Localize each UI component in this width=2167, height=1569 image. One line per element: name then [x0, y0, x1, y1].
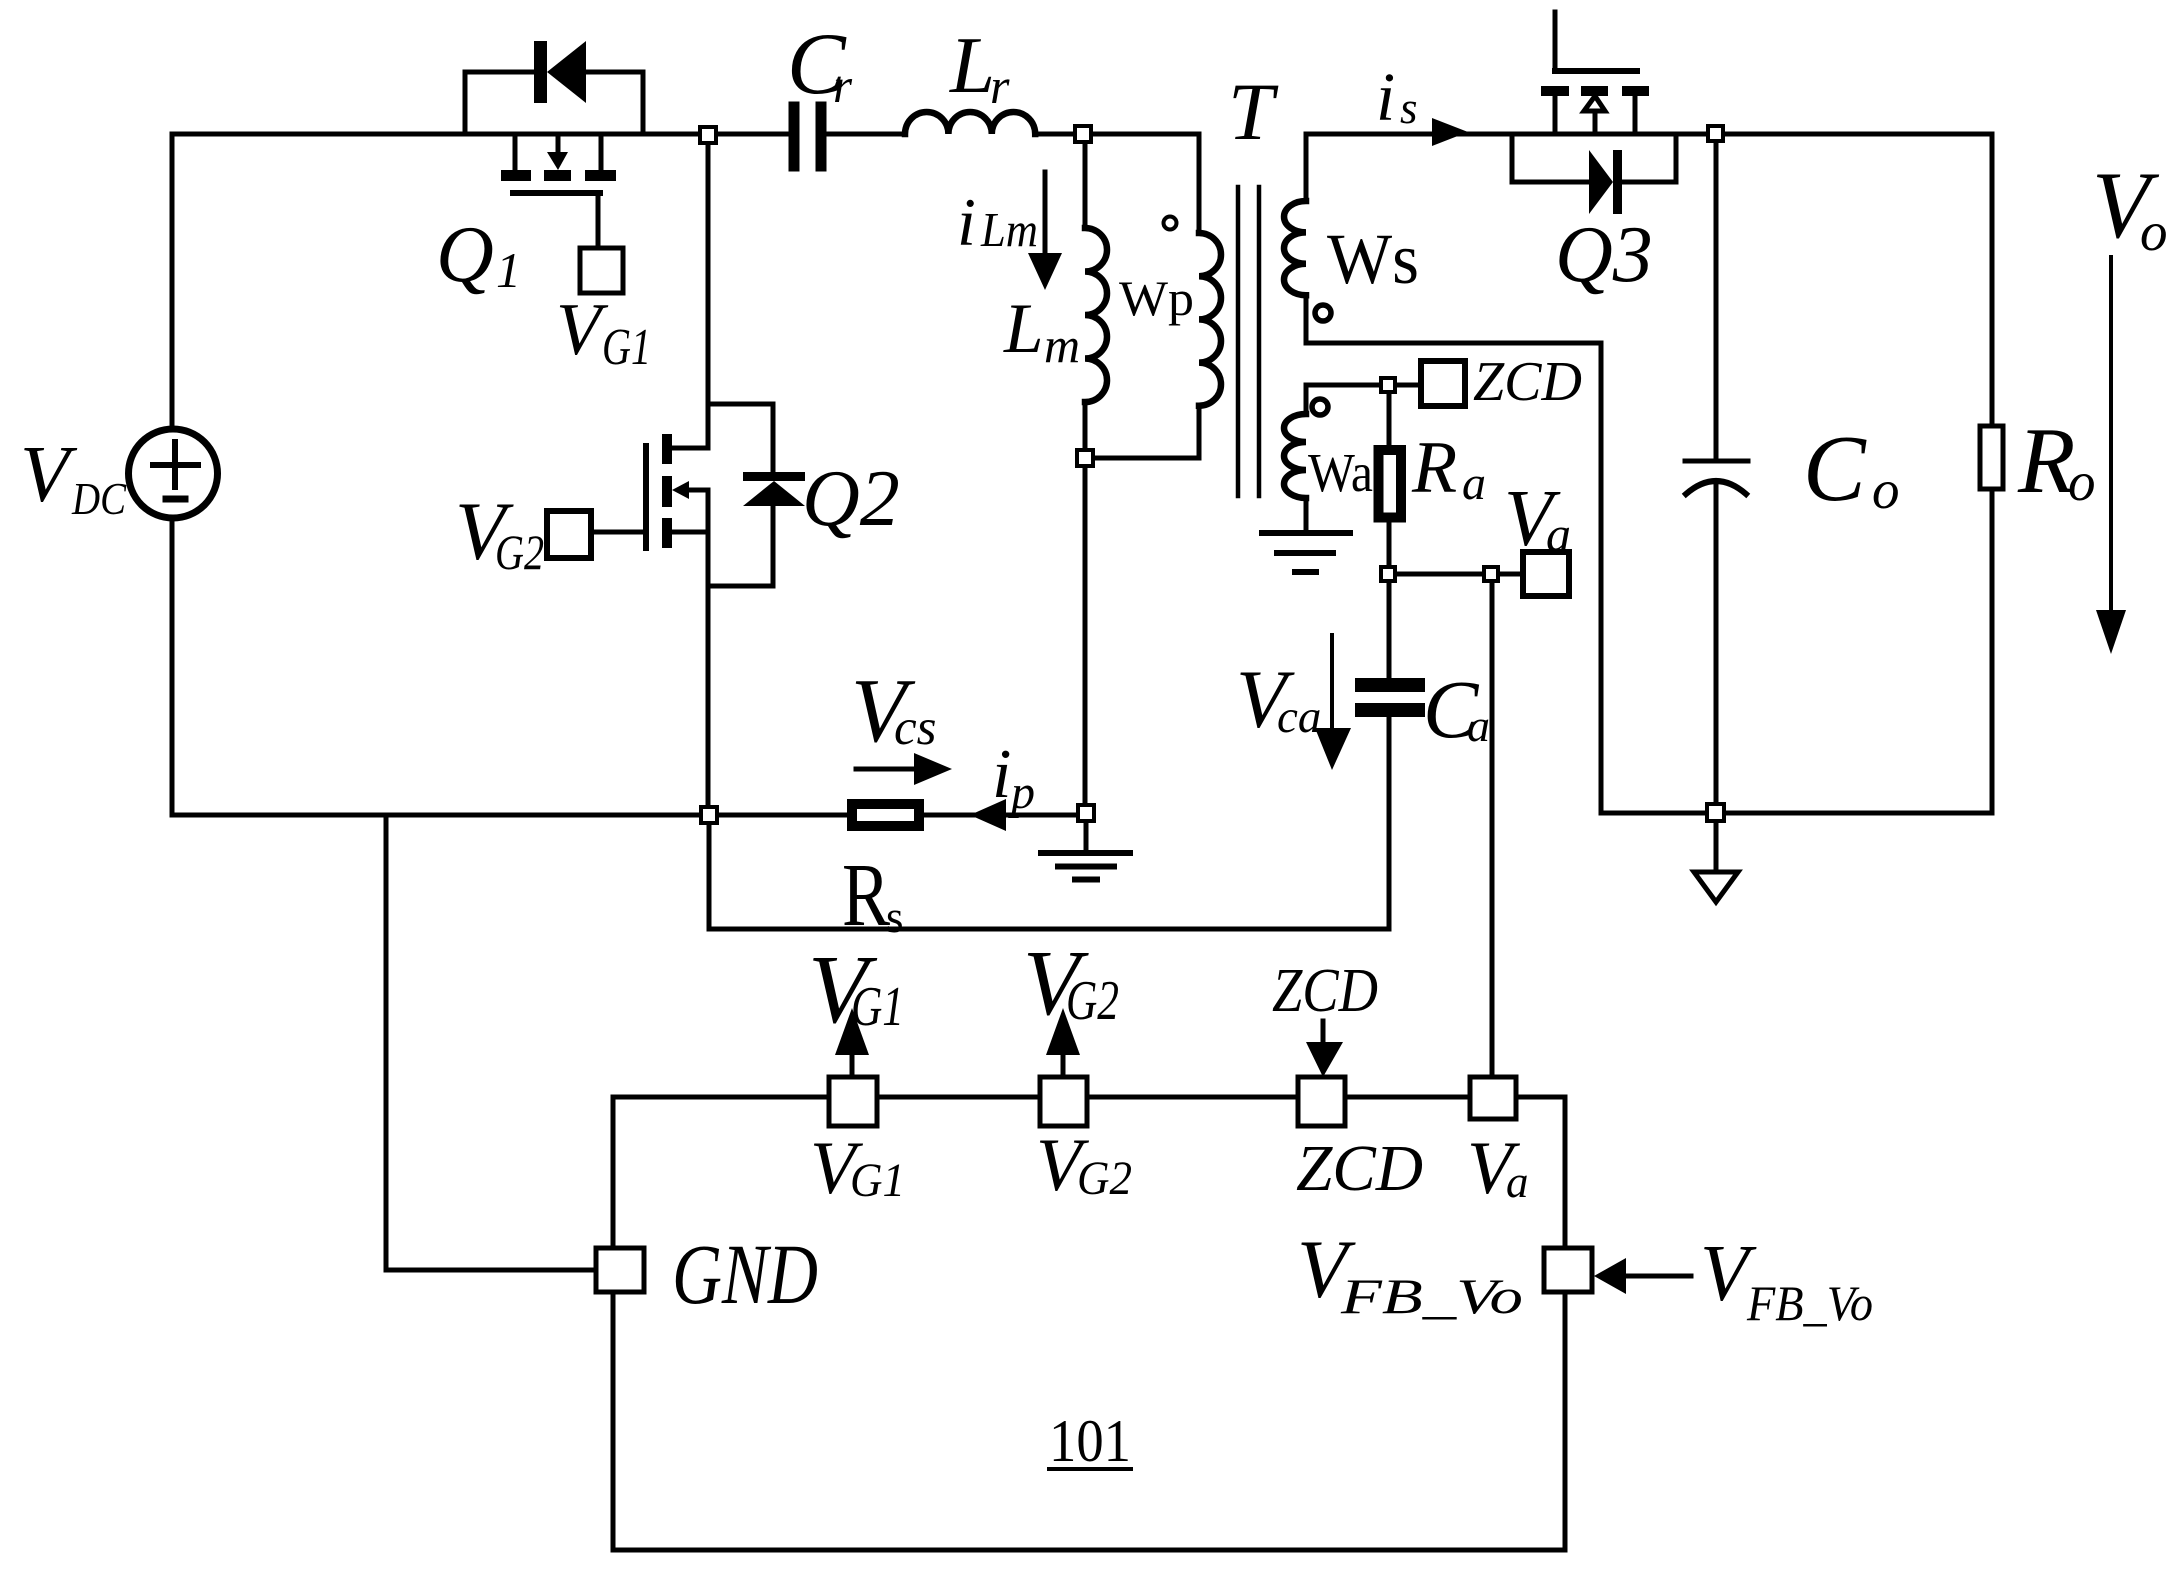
svg-text:r: r — [990, 58, 1010, 114]
svg-text:101: 101 — [1049, 1408, 1131, 1474]
arrow VG1 line above pin — [850, 1053, 855, 1077]
svg-text:R: R — [842, 846, 890, 945]
diode D(Q1) cathode bar — [534, 41, 547, 103]
capacitor Ca top plate — [1362, 678, 1418, 692]
transformer core lines — [1238, 187, 1259, 496]
transistor Q2 source vertical — [706, 490, 711, 815]
arrow ZCD line above pin — [1321, 1021, 1326, 1044]
wire output return bottom — [1601, 811, 1992, 816]
svg-text:o: o — [2068, 451, 2096, 512]
winding Wp bottom wire — [1197, 406, 1202, 458]
VDC minus sign — [166, 496, 185, 503]
arrow VG1 head — [835, 1008, 869, 1055]
resistor Ra — [1379, 450, 1402, 518]
svg-text:m: m — [1044, 317, 1080, 373]
pin VG2 — [1040, 1077, 1087, 1126]
svg-text:L: L — [1003, 290, 1044, 368]
transistor Q2 bulk tie — [688, 488, 708, 493]
wire secondary top from Ws to right corner — [1306, 132, 1992, 137]
svg-text:FB_Vo: FB_Vo — [1340, 1268, 1523, 1324]
transistor Q2 gate line — [643, 446, 649, 548]
winding Wp coil — [1199, 233, 1221, 406]
transistor Q3 bulk arrowhead (open) — [1584, 96, 1605, 111]
transistor Q1 body-diode loop — [465, 72, 643, 134]
svg-text:V: V — [20, 429, 78, 519]
svg-text:G1: G1 — [602, 319, 651, 376]
winding Wa bottom wire — [1304, 498, 1309, 532]
svg-text:ZCD: ZCD — [1473, 351, 1582, 413]
transistor Q2 diode branch bottom — [708, 506, 773, 586]
svg-text:R: R — [1411, 427, 1457, 509]
transistor Q3 diode loop — [1512, 134, 1676, 182]
wire left vertical upper (VDC to top) — [170, 134, 175, 429]
winding Ws coil — [1284, 201, 1306, 295]
resistor Ra top wire — [1387, 392, 1392, 445]
svg-text:o: o — [1872, 459, 1900, 520]
svg-text:a: a — [1467, 700, 1490, 751]
node square (Q2 drain / top wire) — [700, 127, 716, 143]
node square (after Lr) — [1075, 126, 1091, 142]
svg-text:Ws: Ws — [1327, 219, 1419, 299]
resistor Ro — [1980, 426, 2003, 489]
node square (Va junction left) — [1381, 567, 1395, 581]
ground (output) open triangle — [1694, 872, 1738, 902]
svg-text:Q3: Q3 — [1555, 211, 1653, 299]
transistor Q2 drain vertical — [706, 142, 711, 448]
capacitor Co bottom wire — [1714, 481, 1719, 813]
wire bottom Rs to ip node — [924, 813, 1086, 818]
wire Va row left — [1395, 572, 1484, 577]
transistor Q1 drain stub — [513, 134, 518, 170]
arrow VFB_Vo head — [1594, 1258, 1626, 1294]
arrow VFB_Vo line external — [1624, 1274, 1691, 1279]
svg-text:ca: ca — [1277, 691, 1321, 743]
svg-text:ZCD: ZCD — [1296, 1132, 1423, 1205]
voltage source VDC circle — [129, 429, 218, 518]
transistor Q2 source tie — [672, 530, 708, 535]
svg-text:GND: GND — [672, 1226, 818, 1322]
svg-text:o: o — [2140, 201, 2167, 262]
svg-text:1: 1 — [496, 242, 521, 298]
controller box 101 — [613, 1097, 1565, 1550]
wire Ro bottom — [1990, 489, 1995, 813]
resistor Rs — [852, 804, 919, 826]
winding Wp top wire — [1197, 134, 1202, 233]
winding Ws bottom wire — [1304, 295, 1309, 343]
svg-text:T: T — [1228, 66, 1279, 157]
node square (ZCD junction) — [1381, 378, 1395, 392]
arrow Vcs head — [914, 753, 952, 785]
wire left vertical lower (VDC to bottom) — [170, 518, 175, 815]
svg-text:G2: G2 — [1077, 1152, 1132, 1205]
arrow is head — [1432, 118, 1468, 146]
arrow Vca line — [1330, 635, 1334, 726]
svg-text:ZCD: ZCD — [1272, 957, 1378, 1025]
svg-text:a: a — [1506, 1157, 1529, 1207]
svg-text:Wa: Wa — [1308, 442, 1373, 503]
svg-text:G2: G2 — [495, 524, 544, 580]
transistor Q3 source stub — [1633, 96, 1638, 134]
transistor Q1 channel bars — [501, 170, 531, 181]
transistor Q3 bulk wire — [1593, 111, 1598, 134]
svg-text:i: i — [992, 736, 1011, 813]
arrow Vo head — [2096, 610, 2126, 654]
transistor Q1 bulk wire — [556, 134, 561, 152]
svg-text:i: i — [957, 184, 976, 260]
node square (Wp bottom) — [1077, 450, 1093, 466]
transistor Q2 drain tie — [672, 446, 708, 451]
arrow VG2 head — [1046, 1008, 1080, 1055]
svg-text:p: p — [1008, 766, 1035, 819]
svg-text:G1: G1 — [851, 976, 904, 1038]
ground (primary, below ip) — [1084, 821, 1089, 851]
node square (Va junction right) — [1484, 567, 1498, 581]
svg-text:Q2: Q2 — [802, 455, 900, 543]
transistor Q3 channel bars — [1541, 86, 1569, 96]
node square (after Q3) — [1708, 126, 1723, 141]
diode D(Q2) triangle — [743, 481, 805, 506]
arrow VG2 line above pin — [1061, 1053, 1066, 1077]
transistor Q3 gate stub — [1553, 12, 1558, 70]
transistor Q1 bulk arrowhead — [547, 152, 568, 170]
wire Va row right — [1498, 572, 1523, 577]
pin ZCD — [1298, 1077, 1345, 1126]
ground (Wa) — [1262, 533, 1350, 572]
svg-text:a: a — [1546, 506, 1571, 562]
svg-text:s: s — [1400, 83, 1418, 133]
capacitor Co top plate — [1685, 459, 1748, 464]
arrow iLm line — [1043, 172, 1048, 260]
polarity dot Wp — [1164, 217, 1177, 230]
wire secondary return vertical — [1599, 343, 1604, 813]
arrow Vca head — [1315, 728, 1351, 770]
svg-text:DC: DC — [71, 473, 127, 524]
pin VFB_Vo — [1544, 1248, 1592, 1292]
transistor Q2 channel bars — [662, 434, 672, 464]
wire top main left — [172, 132, 789, 137]
arrow Vo line — [2109, 257, 2113, 640]
winding Wa top wire — [1306, 385, 1421, 414]
polarity dot Ws — [1315, 305, 1331, 321]
svg-text:Lm: Lm — [980, 202, 1038, 257]
wire Wp bottom tie — [1085, 456, 1199, 461]
capacitor Ca top wire — [1387, 581, 1392, 678]
svg-text:G2: G2 — [1066, 970, 1119, 1032]
wire top after Cr — [826, 132, 905, 137]
wire GND drop vertical — [384, 815, 389, 1270]
node square (bottom left) — [701, 807, 717, 823]
transistor Q1 source stub — [599, 134, 604, 170]
transistor Q3 drain stub — [1553, 96, 1558, 134]
svg-text:C: C — [1803, 417, 1867, 521]
diode D(Q2) cathode bar — [743, 472, 805, 481]
diode D(Q3) triangle — [1589, 150, 1613, 214]
capacitor Cr left plate — [789, 107, 800, 166]
svg-text:r: r — [833, 58, 853, 113]
wire bottom main left — [172, 813, 847, 818]
transistor Q2 diode branch top — [708, 404, 773, 470]
capacitor Cr right plate — [816, 107, 827, 166]
transistor Q1 gate wire — [596, 193, 601, 248]
pin VG1 — [829, 1077, 877, 1126]
wire Ws bottom horizontal — [1306, 341, 1601, 346]
pin GND — [596, 1248, 644, 1292]
wire right vertical to Ro — [1990, 134, 1995, 426]
arrow iLm head — [1028, 253, 1062, 290]
node square (Co bottom) — [1707, 804, 1724, 821]
diode D(Q3) cathode bar — [1613, 150, 1622, 214]
inductor Lr winding — [905, 112, 1035, 134]
svg-text:R: R — [2017, 409, 2075, 513]
transistor Q2 gate wire — [590, 530, 646, 535]
inductor Lm winding — [1085, 228, 1107, 402]
arrow Vcs line — [856, 767, 918, 772]
wire Lm bottom vertical to ip node — [1083, 466, 1088, 815]
wire Va drop to controller — [1490, 581, 1495, 1077]
arrow ip head — [970, 799, 1006, 831]
wire top after Lr to Wp — [1035, 132, 1199, 137]
pin Va — [1470, 1077, 1516, 1119]
terminal square VG2 (Q2 gate) — [547, 511, 591, 558]
diode D(Q1) triangle — [547, 41, 586, 103]
terminal square VG1 (Q1 gate) — [580, 248, 623, 293]
VDC plus sign — [153, 442, 198, 487]
polarity dot Wa — [1312, 399, 1328, 415]
terminal square ZCD (top) — [1421, 361, 1465, 406]
wire bottom loop (Rs node to Ca) — [709, 815, 1389, 929]
node square (ip / Lm ground) — [1078, 805, 1094, 821]
capacitor Ca bottom wire — [1387, 717, 1392, 929]
svg-text:i: i — [1376, 59, 1395, 135]
arrow ZCD head — [1306, 1042, 1343, 1077]
wire GND horizontal to pin — [386, 1268, 596, 1273]
capacitor Ca bottom plate — [1362, 703, 1418, 717]
transistor Q3 gate plate — [1555, 68, 1637, 74]
capacitor Co bottom plate (curved) — [1686, 481, 1746, 494]
svg-text:FB_Vo: FB_Vo — [1746, 1275, 1873, 1331]
capacitor Co top wire — [1714, 134, 1719, 461]
svg-text:a: a — [1462, 457, 1486, 510]
transistor Q2 bulk arrowhead — [672, 481, 689, 499]
resistor Ra bottom wire — [1387, 522, 1392, 567]
winding Wa coil — [1284, 414, 1306, 498]
inductor Lm wire top — [1083, 142, 1088, 228]
svg-text:s: s — [886, 892, 904, 942]
svg-text:Wp: Wp — [1119, 270, 1194, 326]
ground (output) stem — [1714, 821, 1719, 872]
transistor Q1 gate plate — [513, 190, 600, 196]
winding Ws top wire — [1304, 134, 1309, 201]
svg-text:cs: cs — [894, 700, 936, 756]
svg-text:Q: Q — [436, 211, 494, 299]
terminal square Va (top) — [1523, 552, 1569, 596]
svg-text:L: L — [949, 20, 995, 110]
inductor Lm wire bottom — [1083, 402, 1088, 450]
svg-text:G1: G1 — [850, 1154, 905, 1207]
